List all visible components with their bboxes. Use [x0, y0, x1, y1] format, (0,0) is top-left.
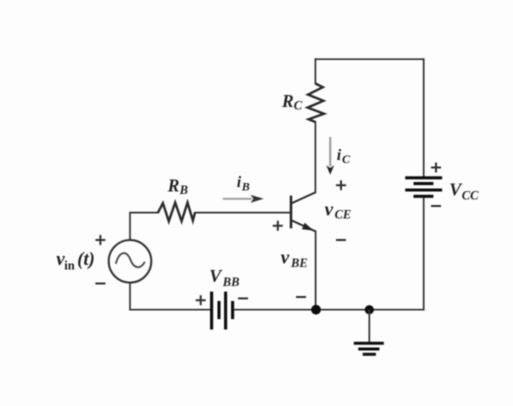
wire RC top lead: [314, 59, 316, 83]
emitter arrowhead: [302, 223, 314, 231]
plus left of VBB: [196, 295, 206, 305]
svg-text:B: B: [179, 183, 188, 197]
resistor RC: [308, 84, 324, 123]
svg-text:CC: CC: [462, 189, 479, 203]
base bar: [290, 196, 293, 229]
plus above VCC: [431, 163, 441, 173]
plus at source top: [95, 235, 105, 245]
wire right lower: VCC bottom down to corner: [423, 197, 425, 310]
ground: [354, 310, 384, 355]
svg-text:C: C: [294, 99, 303, 113]
wire emitter: transistor emitter down to bottom wire: [315, 232, 317, 310]
svg-text:C: C: [342, 152, 351, 166]
transistor Q1: [291, 192, 316, 231]
svg-text:in: in: [64, 259, 74, 273]
source vin(t): [109, 240, 152, 283]
battery VCC: [405, 178, 442, 197]
wire VBB right to bottom-right corner: [233, 309, 424, 311]
svg-text:BB: BB: [222, 275, 240, 289]
current arrow iC: [326, 137, 334, 175]
plus/minus signs drawn as strokes: [95, 163, 441, 306]
junction node ground: [365, 305, 374, 314]
minus below vCE: [336, 239, 346, 241]
minus right of VBB: [238, 297, 248, 299]
wire left: RB left end, corner, down to source top: [130, 213, 158, 240]
wire source bottom to lower-left corner to VBB: [130, 283, 211, 310]
collector diagonal: [292, 192, 316, 203]
wire right upper: top corner down to VCC battery: [423, 59, 425, 177]
minus at source bottom: [95, 283, 105, 285]
current arrow iB: [223, 195, 264, 203]
junction node emitter-bottom: [311, 305, 321, 315]
minus below VCC: [431, 205, 441, 207]
svg-text:R: R: [167, 176, 180, 196]
plus at base (vBE): [273, 221, 283, 231]
emitter diagonal: [292, 220, 316, 231]
battery VBB: [212, 292, 233, 330]
wire collector: RC bottom to transistor collector: [314, 122, 316, 192]
minus below vBE: [296, 296, 306, 298]
svg-text:B: B: [241, 180, 250, 194]
wire top: RC top to VCC top: [315, 58, 423, 60]
svg-text:BE: BE: [290, 256, 308, 270]
svg-text:R: R: [281, 91, 294, 111]
svg-text:(t): (t): [77, 250, 94, 270]
wire base: RB right end to transistor base: [195, 212, 289, 214]
svg-text:v: v: [281, 248, 290, 269]
svg-text:CE: CE: [335, 208, 352, 222]
resistor RB: [158, 203, 195, 222]
svg-text:v: v: [325, 200, 334, 221]
plus above vCE: [336, 180, 346, 190]
svg-text:V: V: [209, 266, 223, 286]
